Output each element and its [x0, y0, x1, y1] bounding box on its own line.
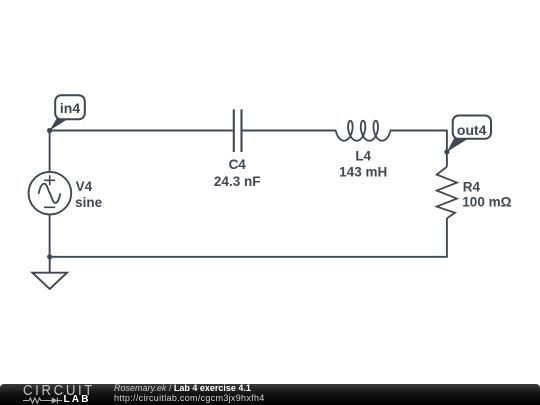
footer line 2: [114, 394, 265, 403]
svg-text:100 mΩ: 100 mΩ: [462, 195, 511, 210]
logo LAB text: [64, 395, 91, 405]
footer bar: [0, 384, 540, 405]
wire: L4 to top-right corner, down to R4: [390, 131, 447, 167]
resistor R4: [437, 167, 457, 218]
junction dot node in4: [47, 128, 52, 133]
inductor L4: [336, 121, 391, 141]
wire: R4 bottom to bottom-right corner and along bottom to ground node: [50, 218, 447, 257]
footer line 1: [114, 384, 251, 393]
wire: left vertical from node in4 down to ground node: [49, 131, 51, 257]
svg-text:L4: L4: [355, 148, 371, 163]
logo CIRCUIT text: [23, 383, 95, 398]
svg-text:in4: in4: [60, 100, 80, 116]
flag box out4: [453, 116, 491, 139]
V4 sine symbol: [39, 184, 61, 203]
flag tail in4: [50, 117, 68, 131]
flag tail out4: [447, 137, 468, 152]
svg-text:R4: R4: [463, 180, 481, 195]
junction dot ground node: [47, 254, 52, 259]
capacitor C4: [234, 109, 242, 152]
voltage source V4 circle: [29, 172, 72, 215]
wire top-left: node in4 to C4 left plate: [50, 130, 233, 132]
flag box in4: [55, 95, 85, 119]
svg-text:sine: sine: [75, 195, 103, 210]
svg-text:out4: out4: [457, 122, 487, 138]
svg-text:V4: V4: [76, 179, 93, 194]
junction dot node out4: [444, 149, 449, 154]
V4 plus sign: [44, 175, 55, 185]
ground symbol: [32, 257, 67, 289]
logo resistor-diode glyph: [23, 396, 67, 405]
svg-text:143 mH: 143 mH: [339, 164, 387, 179]
svg-text:24.3 nF: 24.3 nF: [214, 174, 261, 189]
wire: C4 right plate to L4: [243, 130, 337, 132]
V4 minus sign: [44, 206, 55, 208]
svg-text:C4: C4: [229, 157, 247, 172]
